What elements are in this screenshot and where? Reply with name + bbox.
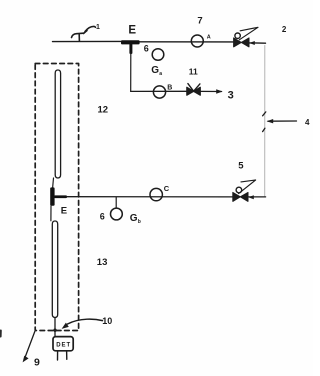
label 12 (upper column)	[98, 105, 109, 116]
label 6 (top)	[144, 44, 149, 54]
wire: top main carrier line	[53, 41, 266, 43]
svg-text:b: b	[138, 219, 141, 225]
svg-text:5: 5	[238, 160, 244, 171]
label 11	[189, 67, 198, 77]
control valve 2	[234, 27, 258, 47]
arrow to vent 3	[216, 89, 222, 94]
svg-text:G: G	[151, 65, 159, 76]
wire: column 13 to detector	[54, 318, 56, 337]
svg-text:11: 11	[189, 67, 198, 77]
column 12 tube	[55, 70, 60, 178]
orifice B circle	[153, 86, 165, 98]
wire: vent branch line	[131, 90, 222, 92]
svg-text:A: A	[207, 35, 211, 41]
label 7	[197, 16, 202, 27]
gauge Ga circle (6)	[152, 49, 164, 61]
svg-text:6: 6	[100, 212, 105, 222]
orifice A circle (7)	[191, 35, 203, 47]
detector leads	[58, 351, 67, 360]
wire: vertical drop from tee E to vent branch	[130, 53, 132, 91]
svg-text:9: 9	[34, 357, 40, 369]
label C	[164, 184, 170, 193]
junction E (top tee)	[121, 40, 140, 54]
control valve 5	[233, 180, 256, 201]
label Ga	[151, 65, 162, 77]
label B	[167, 84, 172, 91]
inlet arrow 4	[263, 112, 297, 132]
edge mark (page artifact)	[0, 331, 2, 337]
restrictor 1 (hand-drawn squiggle)	[72, 26, 96, 41]
wire: right side return line (faint)	[264, 46, 266, 197]
label 2	[282, 25, 287, 34]
needle valve 11	[187, 84, 201, 96]
svg-text:E: E	[128, 25, 136, 37]
wire: junction E2 to column 13	[50, 206, 52, 221]
svg-text:B: B	[167, 84, 172, 91]
column 13 tube	[52, 221, 57, 318]
pointer 10 (curved arrow)	[62, 319, 103, 329]
svg-text:6: 6	[144, 44, 149, 54]
label Gb	[130, 213, 141, 225]
svg-text:13: 13	[97, 257, 108, 268]
label A	[207, 35, 211, 41]
svg-text:12: 12	[98, 105, 109, 116]
detector DET box	[53, 337, 73, 351]
svg-text:DET: DET	[56, 343, 70, 349]
label E (lower)	[61, 206, 67, 217]
label 10	[102, 316, 112, 326]
svg-text:4: 4	[305, 118, 310, 127]
label 5	[238, 160, 244, 171]
svg-text:7: 7	[197, 16, 202, 27]
svg-text:10: 10	[102, 316, 112, 326]
arrowhead into valve 5 from right	[248, 195, 254, 199]
label 9	[34, 357, 40, 369]
svg-text:E: E	[61, 206, 67, 217]
svg-text:1: 1	[96, 24, 100, 31]
label 13 (lower column)	[97, 257, 108, 268]
label E (top)	[128, 25, 136, 37]
arrowhead into valve 2 from right	[249, 41, 255, 45]
svg-text:a: a	[159, 71, 162, 77]
label 4	[305, 118, 310, 127]
label 6 (lower)	[100, 212, 105, 222]
gauge Gb tick	[115, 198, 117, 208]
node: line crossing oven wall	[53, 329, 56, 332]
wire: second main line to valve 5	[67, 196, 266, 198]
label 3	[228, 89, 234, 101]
label 1	[96, 24, 100, 31]
svg-text:C: C	[164, 184, 170, 193]
svg-text:2: 2	[282, 25, 287, 34]
svg-text:G: G	[130, 213, 138, 224]
oven 9 (dashed enclosure)	[35, 64, 78, 331]
gauge Gb circle (6)	[111, 208, 123, 220]
svg-text:3: 3	[228, 89, 234, 101]
wire: column 12 to junction E2	[52, 178, 55, 188]
pointer 9 (diagonal arrow to oven)	[23, 332, 35, 363]
orifice C circle	[150, 188, 162, 200]
junction E2 (column tee)	[50, 187, 67, 205]
